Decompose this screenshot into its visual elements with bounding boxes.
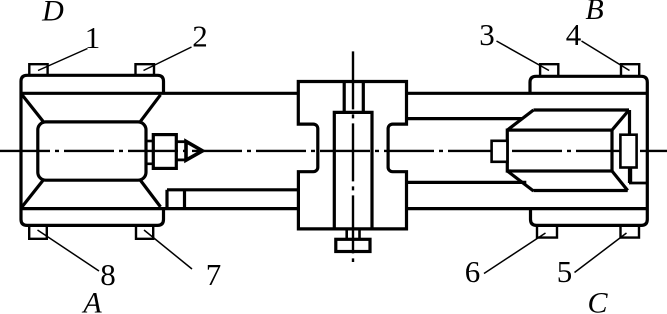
svg-text:7: 7 [206,257,222,292]
leader 8 [38,230,100,271]
tab 5 [621,225,640,237]
leader 6 [484,233,546,274]
screw body [334,112,372,228]
svg-text:1: 1 [85,20,101,55]
screw shank right line [362,82,365,113]
tab 2 [136,64,155,75]
bed bottom line left span [21,207,298,210]
screw shank left line [343,82,346,113]
bed bottom line right span [407,207,648,210]
block bottom-left diagonal [507,171,533,191]
block top-right diagonal [612,110,629,130]
leader 5 [575,233,627,273]
svg-text:C: C [587,287,608,314]
spindle neck bottom line [146,163,153,166]
headstock bottom trapezoid left diagonal [22,180,43,207]
tab 8 [29,225,47,238]
svg-text:B: B [585,0,603,26]
center cylinder bottom line [176,158,186,161]
bolt neck left [345,229,348,239]
svg-text:8: 8 [100,257,116,292]
bed top line right span [407,92,648,95]
carriage outline [298,82,406,229]
block back top edge [534,108,630,111]
spindle neck top line [146,140,153,143]
svg-text:3: 3 [479,17,495,52]
block back bottom edge [534,189,628,192]
right bracket vertical [629,168,632,184]
tab 4 [621,64,639,76]
right upper connecting line [407,117,523,120]
leader 3 [497,41,550,71]
headstock top trapezoid right diagonal [141,95,161,122]
svg-text:D: D [41,0,64,28]
svg-text:2: 2 [192,19,208,54]
tab 3 [540,64,558,76]
tab 7 [136,225,153,238]
bed bar top line [167,188,298,191]
center cone [186,141,203,160]
svg-text:4: 4 [566,17,582,52]
tailstock right small rect [620,135,636,168]
horizontal axis centerline [0,150,667,152]
carriage vertical centerline [352,51,354,262]
block bottom-right diagonal [612,171,628,191]
bed bar divider [183,190,186,209]
block top-left diagonal [507,110,533,130]
tab 1 [29,64,47,75]
right bracket horizontal [629,182,647,185]
leader 1 [38,49,88,71]
headstock top trapezoid left diagonal [22,95,43,122]
bed bar left end [165,190,168,209]
leader 7 [144,230,192,269]
tab 6 [537,225,557,237]
leader 2 [144,47,192,71]
svg-text:A: A [81,287,102,314]
bed top line left span [21,92,298,95]
tailstock left end piece [492,141,508,162]
block back right edge [628,110,631,183]
leader 4 [582,41,630,71]
right lower connecting line [407,181,527,184]
bolt neck right [358,229,361,239]
center holder big rect [153,135,176,169]
headstock outer plates outline [21,75,164,225]
svg-text:5: 5 [557,254,573,289]
tailstock outer plates outline [530,76,647,225]
bolt head [336,239,370,251]
svg-text:6: 6 [465,254,481,289]
block front face [507,130,612,171]
headstock bottom trapezoid right diagonal [141,180,161,207]
headstock center body [38,122,146,180]
center cylinder top line [176,140,186,143]
